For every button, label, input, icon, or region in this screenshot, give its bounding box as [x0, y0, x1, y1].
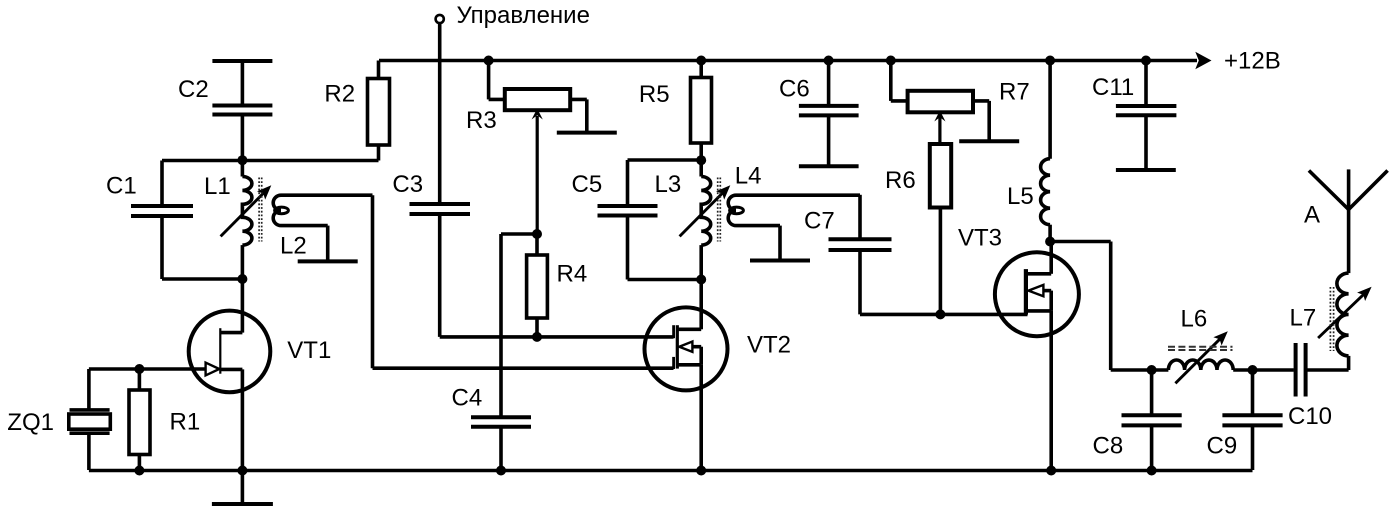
- svg-text:L1: L1: [204, 173, 231, 200]
- svg-text:C3: C3: [392, 171, 423, 198]
- svg-text:C7: C7: [804, 208, 835, 235]
- svg-text:L5: L5: [1007, 183, 1034, 210]
- svg-text:R7: R7: [999, 79, 1030, 106]
- svg-text:L7: L7: [1290, 305, 1317, 332]
- svg-text:R4: R4: [557, 261, 588, 288]
- svg-text:VT3: VT3: [958, 225, 1002, 252]
- svg-text:R5: R5: [639, 81, 670, 108]
- svg-text:C9: C9: [1207, 433, 1238, 460]
- svg-text:+12В: +12В: [1224, 48, 1281, 75]
- svg-text:C6: C6: [779, 76, 810, 103]
- svg-text:R2: R2: [324, 81, 355, 108]
- svg-text:C2: C2: [178, 76, 209, 103]
- svg-text:VT2: VT2: [747, 332, 791, 359]
- svg-text:L3: L3: [655, 171, 682, 198]
- svg-text:C10: C10: [1288, 403, 1332, 430]
- svg-text:R6: R6: [885, 167, 916, 194]
- svg-text:C1: C1: [106, 172, 137, 199]
- svg-text:R1: R1: [170, 409, 201, 436]
- svg-text:C4: C4: [452, 384, 483, 411]
- svg-text:L6: L6: [1181, 306, 1208, 333]
- svg-text:L2: L2: [280, 233, 307, 260]
- svg-text:C8: C8: [1093, 433, 1124, 460]
- svg-text:C5: C5: [572, 171, 603, 198]
- svg-text:ZQ1: ZQ1: [7, 409, 54, 436]
- svg-text:A: A: [1304, 202, 1320, 229]
- svg-text:Управление: Управление: [457, 2, 590, 29]
- svg-text:VT1: VT1: [287, 337, 331, 364]
- svg-text:L4: L4: [735, 162, 762, 189]
- svg-text:R3: R3: [466, 107, 497, 134]
- svg-text:C11: C11: [1092, 74, 1134, 101]
